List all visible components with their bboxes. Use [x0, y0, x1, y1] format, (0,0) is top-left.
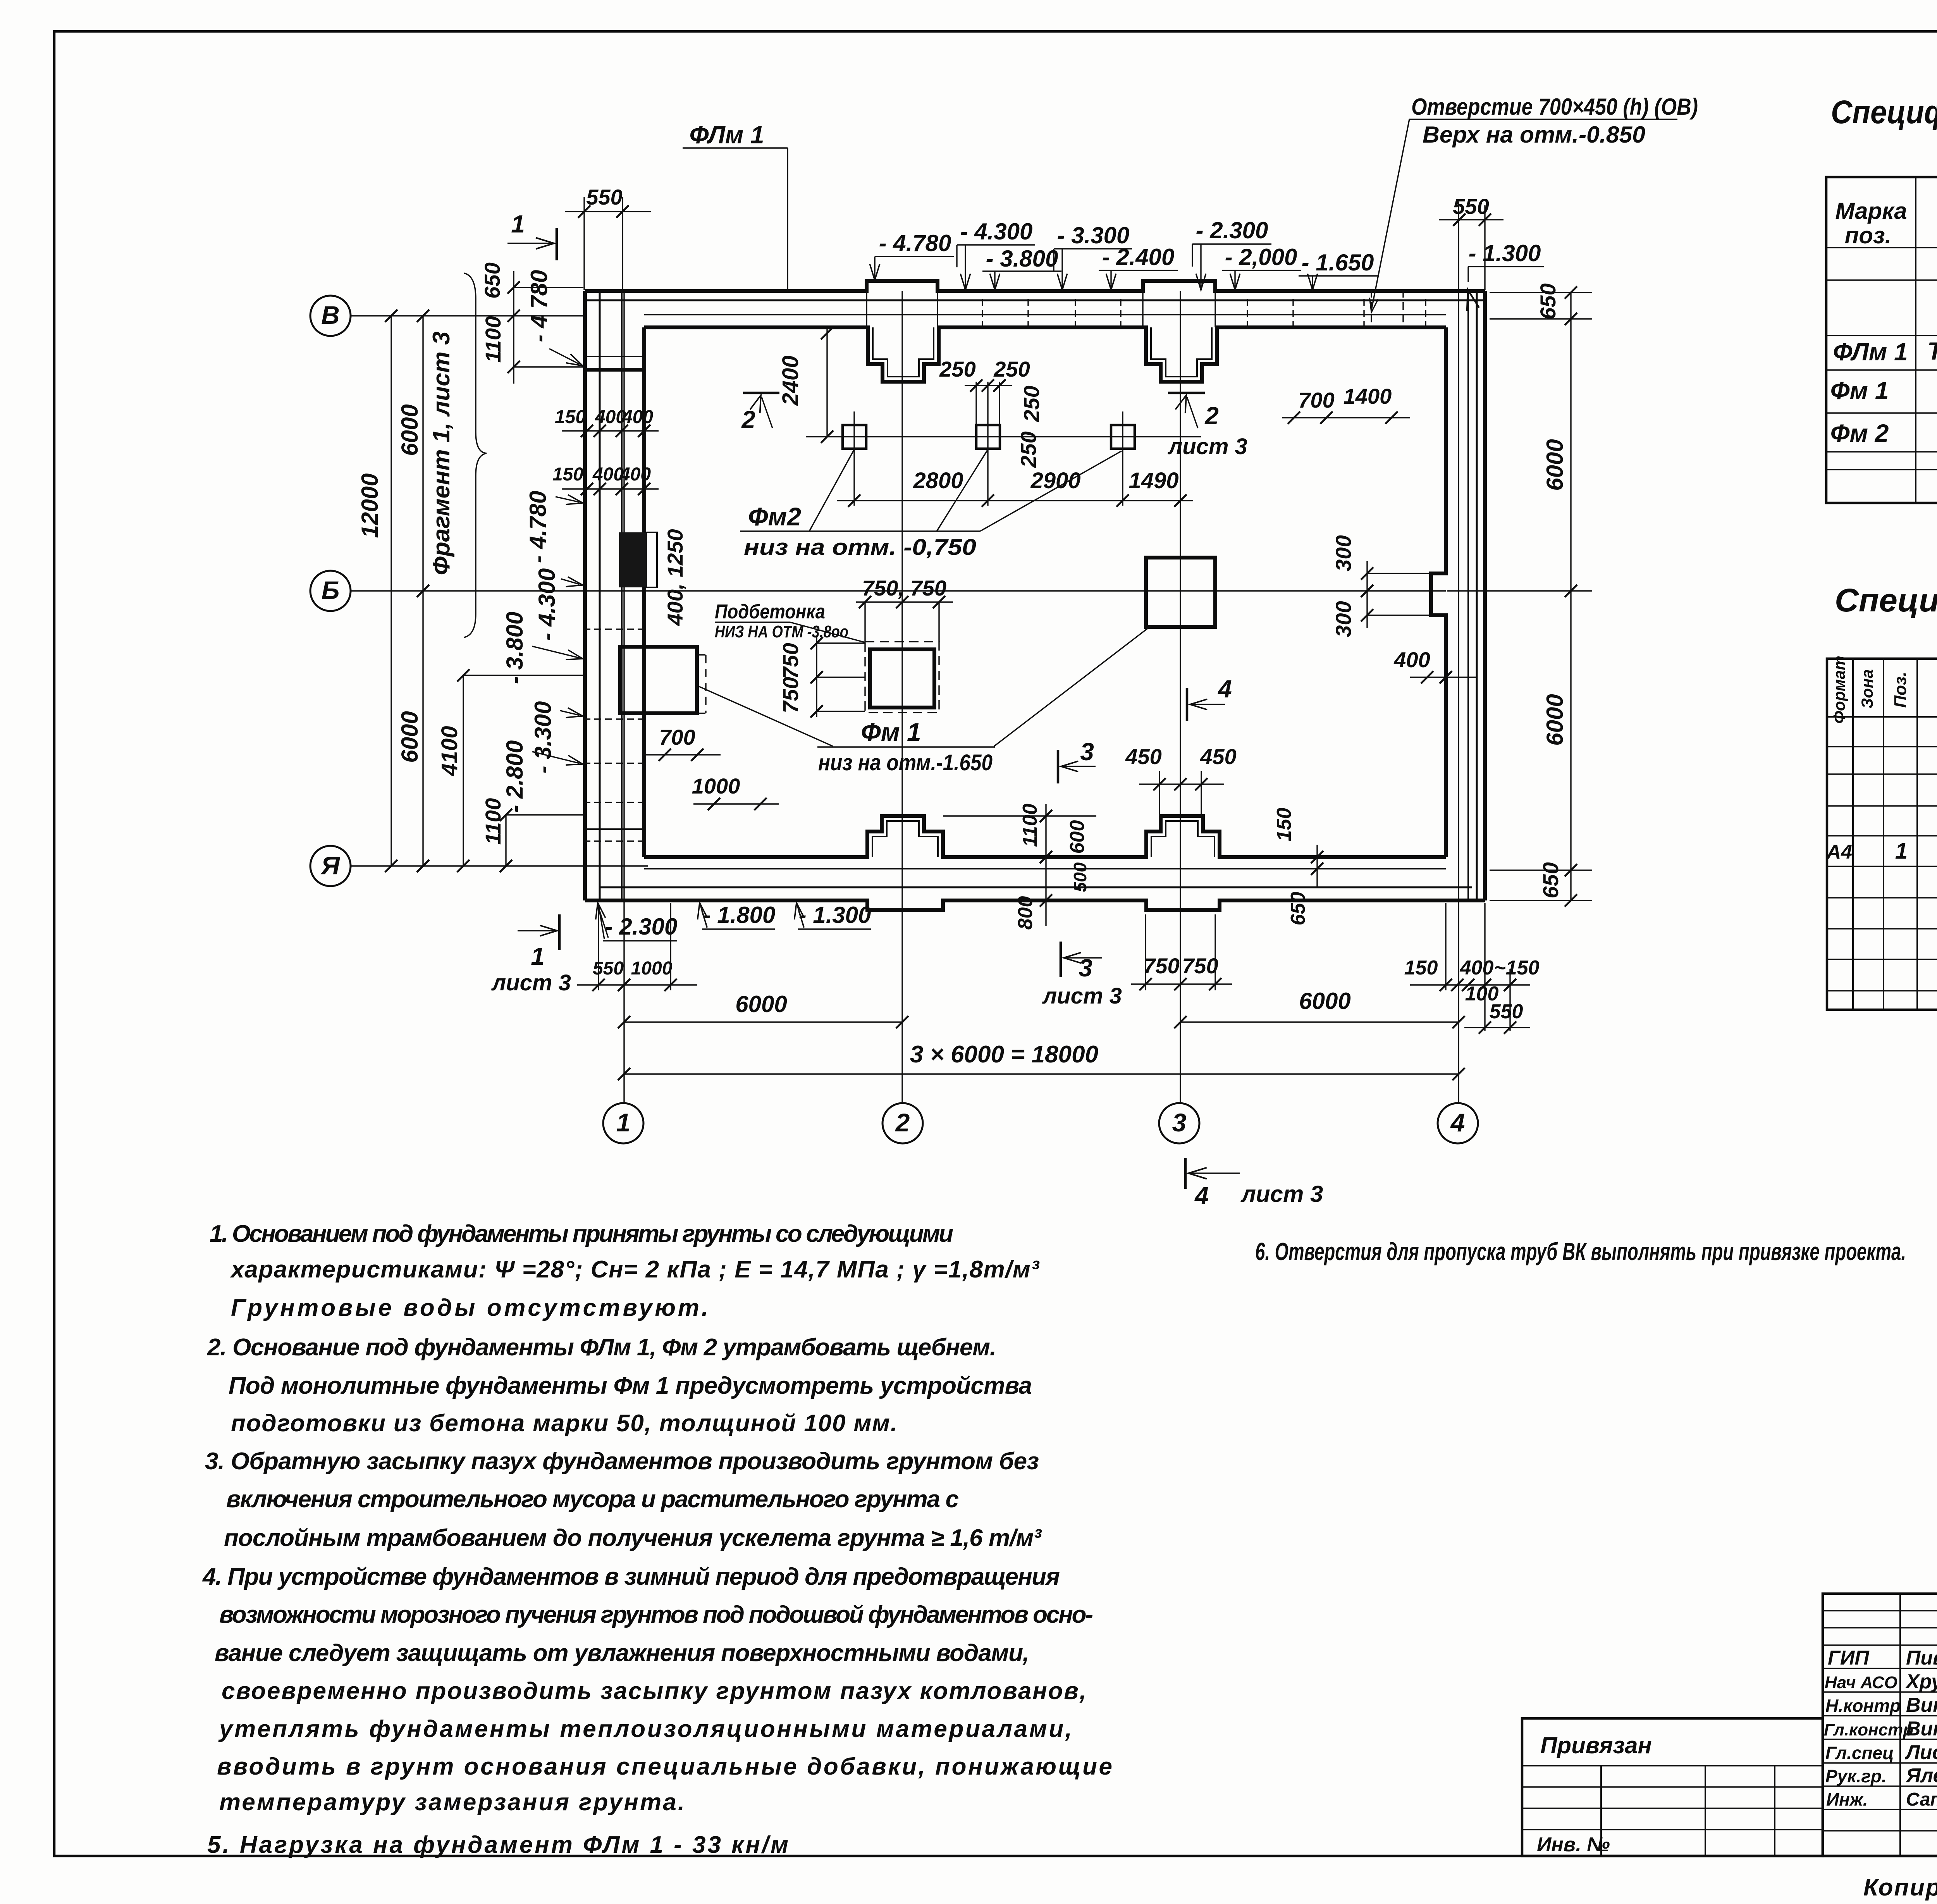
- dim 550 top right: [1439, 194, 1503, 290]
- svg-text:500: 500: [1070, 862, 1090, 892]
- title block signature table: [1823, 1594, 1937, 1856]
- axis line col1 vertical: [623, 291, 624, 1103]
- left wall widening at axis B2: [644, 532, 657, 587]
- bottom dim line 3x6000=18000: [618, 1041, 1465, 1080]
- svg-text:- 4 780: - 4 780: [526, 270, 552, 343]
- vertical label -4.780 at top left corner: [526, 270, 585, 370]
- dim 250 250 above square2: [939, 357, 1030, 425]
- notes block: [202, 1221, 1112, 1858]
- section mark 1 bottom with list 3: [491, 914, 571, 995]
- svg-text:3. Обратную засыпку пазух ф: 3. Обратную засыпку пазух фундаментов пр…: [205, 1448, 1039, 1475]
- svg-text:Марка: Марка: [1835, 198, 1907, 224]
- svg-text:150: 150: [1273, 808, 1295, 842]
- svg-text:4: 4: [1450, 1108, 1465, 1137]
- right wall inner offset line: [1467, 291, 1469, 900]
- svg-text:ТП: ТП: [1927, 337, 1937, 365]
- svg-text:150: 150: [1404, 957, 1438, 979]
- table 2 grid: [1827, 659, 1937, 1010]
- svg-text:ГИП: ГИП: [1828, 1647, 1870, 1669]
- elevation tick dashes on top wall: [982, 299, 1426, 329]
- svg-text:Спецификация к схеме расположе: Спецификация к схеме расположения фундам…: [1831, 94, 1937, 130]
- svg-text:- 4.300: - 4.300: [534, 568, 560, 641]
- svg-text:включения строительного мусо: включения строительного мусора и растите…: [226, 1486, 959, 1513]
- svg-text:4100: 4100: [437, 726, 462, 776]
- svg-text:Зона: Зона: [1858, 669, 1876, 708]
- svg-text:- 1.800: - 1.800: [703, 902, 776, 928]
- elevation label -2.400: [1099, 244, 1178, 290]
- dims on bottom wall col3: 150 650: [1273, 808, 1323, 926]
- svg-text:лист 3: лист 3: [491, 970, 571, 995]
- elevation label -4.300: [957, 219, 1035, 290]
- right wall outer edge: [1483, 291, 1487, 900]
- svg-text:Гл.констр: Гл.констр: [1824, 1720, 1913, 1739]
- svg-text:Фм 1: Фм 1: [861, 718, 921, 746]
- svg-text:НИЗ НА ОТМ -3.8оо: НИЗ НА ОТМ -3.8оо: [715, 622, 848, 641]
- svg-text:1000: 1000: [692, 774, 740, 798]
- dim 250 rotated pair right of square2: [1016, 386, 1044, 468]
- dim 750,750 above dashed square: [856, 576, 953, 642]
- svg-text:Фрагмент 1, лист 3: Фрагмент 1, лист 3: [428, 331, 455, 575]
- elevation tick dashes on left wall: [583, 629, 644, 841]
- label Fm1 with leaders: [699, 626, 1151, 775]
- svg-text:3 × 6000 = 18000: 3 × 6000 = 18000: [910, 1041, 1098, 1068]
- svg-text:2: 2: [895, 1108, 910, 1137]
- svg-text:3: 3: [1079, 954, 1092, 982]
- left wall outer edge: [583, 291, 587, 900]
- svg-text:- 1.650: - 1.650: [1302, 250, 1374, 275]
- bottom pilaster col2 inner outline: [872, 821, 938, 857]
- elevation label -4.780 top: [870, 230, 954, 280]
- svg-text:Сапрошина: Сапрошина: [1906, 1789, 1937, 1810]
- svg-text:лист 3: лист 3: [1167, 434, 1247, 459]
- elevation label -1.650: [1299, 250, 1378, 290]
- bottom elevation label -1.800: [695, 902, 775, 929]
- opening dashed marks on top wall: [1371, 290, 1372, 329]
- svg-text:Б: Б: [322, 576, 340, 604]
- svg-text:650: 650: [1538, 862, 1563, 898]
- svg-text:поз.: поз.: [1845, 222, 1892, 248]
- svg-text:Подбетонка: Подбетонка: [715, 601, 825, 623]
- svg-text:700: 700: [659, 725, 695, 749]
- svg-text:- 1.300: - 1.300: [1469, 240, 1541, 266]
- table 1 row FLm1: [1833, 334, 1937, 366]
- dim chain 6000 6000 left: [397, 310, 429, 872]
- hatched block on left wall at axis B2: [619, 532, 647, 587]
- elevation label -3.800: [982, 246, 1061, 290]
- svg-text:- 1.300: - 1.300: [799, 902, 871, 928]
- svg-text:возможности морозного пучени: возможности морозного пучения грунтов по…: [219, 1601, 1093, 1628]
- bottom dim line 6000 right span: [1174, 988, 1465, 1028]
- svg-text:450: 450: [1125, 744, 1161, 769]
- dim 400 right lower: [1393, 647, 1476, 683]
- elevation label -1.300 top right: [1462, 240, 1544, 311]
- axis line col2 vertical: [901, 291, 903, 1103]
- svg-text:своевременно производить зас: своевременно производить засыпку грунтом…: [222, 1678, 1086, 1704]
- svg-text:низ на отм.-1.650: низ на отм.-1.650: [818, 750, 993, 775]
- elevation label -3.300: [1054, 222, 1132, 290]
- svg-text:800: 800: [1014, 896, 1037, 930]
- dim 2800 2900 1490 row: [837, 462, 1193, 507]
- svg-text:6000: 6000: [397, 404, 423, 456]
- section mark 2 left: [741, 393, 779, 434]
- svg-text:характеристиками: Ψ =28°; Сн=: характеристиками: Ψ =28°; Сн= 2 кПа ; Е …: [230, 1256, 1039, 1283]
- svg-text:2900: 2900: [1030, 468, 1080, 493]
- svg-text:низ на отм. -0,750: низ на отм. -0,750: [744, 535, 976, 560]
- dim 750 750 rotated at dashed square: [778, 635, 865, 718]
- svg-text:1000: 1000: [631, 958, 673, 979]
- svg-text:400: 400: [619, 464, 651, 485]
- svg-text:утеплять фундаменты теплоизо: утеплять фундаменты теплоизоляционными м…: [218, 1716, 1072, 1742]
- right dim chain 650 6000 6000 650: [1447, 283, 1592, 907]
- svg-text:Инж.: Инж.: [1826, 1789, 1868, 1809]
- svg-text:4: 4: [1217, 675, 1232, 703]
- svg-text:Инв. №: Инв. №: [1537, 1833, 1610, 1856]
- dims bottom right corner 150 400 150 100 550: [1404, 903, 1540, 1034]
- axis circle 4: [1438, 1103, 1478, 1143]
- svg-text:- 3.800: - 3.800: [502, 612, 528, 684]
- axis circle B row: [310, 296, 351, 336]
- bottom pilaster col3 inner outline: [1151, 821, 1214, 857]
- Fm2 column square 2: [976, 411, 1000, 462]
- svg-text:1100: 1100: [1019, 804, 1041, 847]
- axis circle B2 row: [310, 571, 351, 611]
- axis line col4 vertical: [1458, 291, 1459, 1103]
- svg-text:- 4.780: - 4.780: [525, 491, 551, 563]
- svg-text:250: 250: [993, 357, 1030, 381]
- svg-text:1100: 1100: [481, 798, 505, 845]
- svg-text:300: 300: [1331, 601, 1356, 637]
- dashed Fm1 square with podbetonka: [865, 642, 939, 713]
- svg-text:- 2,000: - 2,000: [1225, 244, 1297, 270]
- top wall outer offset line: [585, 300, 1485, 301]
- svg-text:6000: 6000: [1542, 439, 1568, 491]
- axis circle 3: [1159, 1103, 1199, 1143]
- svg-text:Винклер: Винклер: [1906, 1694, 1937, 1716]
- dim 1100 bottom left: [481, 798, 583, 872]
- bottom elevation label -1.300: [791, 902, 871, 929]
- big Fm1 square at axis B2: [1146, 558, 1215, 627]
- svg-text:Фм 1: Фм 1: [1830, 377, 1889, 405]
- dim 4100: [437, 669, 583, 872]
- Fm2 row centerline: [806, 436, 1201, 437]
- svg-text:А4: А4: [1826, 841, 1853, 863]
- svg-text:400: 400: [595, 407, 626, 427]
- svg-text:Нач АСО: Нач АСО: [1825, 1673, 1897, 1692]
- svg-text:1: 1: [1895, 838, 1908, 864]
- dim 750 750 bottom col3: [1131, 914, 1232, 990]
- section mark 2 right with list 3: [1167, 393, 1247, 459]
- axis circle 1: [603, 1103, 643, 1143]
- svg-text:750: 750: [1143, 954, 1179, 978]
- svg-text:750: 750: [778, 643, 803, 679]
- axis line B2 horizontal: [351, 590, 1446, 591]
- svg-text:400, 1250: 400, 1250: [663, 529, 687, 626]
- left wall inner edge: [642, 327, 646, 857]
- fragment bracket: [464, 273, 487, 637]
- svg-text:- 2.300: - 2.300: [1196, 217, 1268, 243]
- svg-text:Поз.: Поз.: [1891, 671, 1910, 708]
- bottom elevation label -2.300: [593, 902, 677, 941]
- pilaster edge verticals top strip: [866, 291, 867, 327]
- svg-text:1: 1: [511, 210, 525, 238]
- left wall outer offset line: [599, 291, 601, 900]
- signature table names: [1824, 1647, 1937, 1810]
- right wall inner edge with notch: [1431, 327, 1446, 857]
- svg-text:1: 1: [616, 1108, 631, 1137]
- svg-text:Грунтовые воды отсутствуют.: Грунтовые воды отсутствуют.: [231, 1295, 708, 1321]
- vertical labels -4.780 -4.300 -3.800 -3.300 -2.800 on left: [502, 491, 584, 813]
- svg-text:Фм 2: Фм 2: [1830, 419, 1889, 447]
- table 2 header text: [1830, 656, 1937, 723]
- left corner footing bottom lines: [585, 356, 644, 357]
- svg-text:Спецификация фундамента ФЛм 1: Спецификация фундамента ФЛм 1: [1835, 582, 1937, 618]
- dim 2400 vertical: [778, 327, 833, 443]
- svg-text:- 4.300: - 4.300: [960, 219, 1033, 244]
- table 1 row Fm1: [1830, 375, 1937, 406]
- label Podbetonka: [715, 601, 865, 642]
- svg-text:Винклер: Винклер: [1906, 1718, 1937, 1740]
- dim 700 1400 right top: [1282, 384, 1410, 424]
- dim 550 top left: [565, 185, 651, 290]
- svg-text:Я: Я: [320, 851, 341, 880]
- bottom wall outer offset line: [600, 887, 1472, 888]
- svg-text:4: 4: [1194, 1182, 1209, 1210]
- svg-text:лист 3: лист 3: [1042, 983, 1122, 1009]
- top wall inner offset line: [644, 314, 1446, 315]
- svg-text:6000: 6000: [1299, 988, 1350, 1014]
- svg-text:1100: 1100: [481, 316, 505, 363]
- svg-text:2800: 2800: [913, 468, 963, 493]
- svg-text:750: 750: [778, 677, 803, 713]
- svg-text:300: 300: [1331, 535, 1356, 571]
- top wall inner edge with pilasters: [644, 327, 1446, 382]
- svg-text:вводить в грунт основания: вводить в грунт основания специальные до…: [217, 1753, 1112, 1780]
- dim rows 150 400 400 lower: [552, 464, 659, 495]
- svg-text:Пивторак: Пивторак: [1906, 1647, 1937, 1669]
- svg-text:- 3.800: - 3.800: [986, 246, 1058, 272]
- svg-text:1. Основанием под фундаменты п: 1. Основанием под фундаменты приняты гру…: [210, 1221, 953, 1247]
- svg-text:В: В: [321, 301, 340, 329]
- svg-text:1400: 1400: [1344, 384, 1392, 408]
- svg-text:6. Отверстия для пропуска: 6. Отверстия для пропуска труб ВК выполн…: [1255, 1238, 1906, 1265]
- svg-text:2. Основание под фундаменты Ф: 2. Основание под фундаменты ФЛм 1, Фм 2 …: [207, 1334, 996, 1361]
- svg-text:150: 150: [552, 464, 583, 485]
- Fm2 column square 1: [843, 411, 866, 462]
- svg-text:послойным трамбованием до п: послойным трамбованием до получения γске…: [224, 1525, 1042, 1551]
- svg-text:400: 400: [622, 407, 653, 427]
- svg-text:- 2.300: - 2.300: [605, 914, 678, 940]
- dim 1000: [692, 774, 779, 810]
- foundation Fm1 block on left wall: [620, 647, 697, 713]
- dim rows 150 400 400 upper: [555, 407, 659, 437]
- svg-text:- 4.780: - 4.780: [879, 230, 951, 256]
- elevation label -2.000: [1222, 244, 1301, 290]
- section mark 1 top: [507, 210, 557, 260]
- svg-text:ФЛм 1: ФЛм 1: [689, 121, 764, 149]
- top pilaster col2 inner outline: [873, 327, 934, 377]
- svg-text:Гл.спец: Гл.спец: [1825, 1743, 1894, 1763]
- svg-text:6000: 6000: [735, 991, 787, 1017]
- dim 300 300 at right wall notch: [1331, 535, 1431, 637]
- svg-text:Лисичкин: Лисичкин: [1904, 1741, 1937, 1764]
- svg-text:Н.контр: Н.контр: [1825, 1696, 1901, 1716]
- dim 550 1000 bottom left: [577, 903, 697, 991]
- svg-text:подготовки из бетона марки: подготовки из бетона марки 50, толщиной …: [231, 1410, 897, 1437]
- svg-text:- 3.300: - 3.300: [530, 701, 556, 774]
- svg-text:Формат: Формат: [1830, 656, 1848, 723]
- svg-text:Ялехова: Ялехова: [1905, 1765, 1937, 1787]
- axis line A horizontal: [351, 865, 648, 866]
- axis line col3 vertical: [1180, 291, 1181, 1103]
- Fm1 dashed podbetonka at left wall: [697, 655, 706, 713]
- svg-text:750: 750: [1182, 954, 1218, 978]
- svg-text:6000: 6000: [397, 711, 423, 763]
- dim 700 at left Fm1: [643, 725, 721, 761]
- top wall outer edge with pilaster bumps: [585, 281, 1485, 291]
- svg-text:1490: 1490: [1128, 468, 1178, 493]
- bottom dim line 6000 left span: [618, 991, 908, 1028]
- svg-text:2: 2: [1204, 402, 1219, 430]
- bottom wall inner edge with pilasters: [644, 816, 1446, 857]
- svg-text:150: 150: [555, 407, 586, 427]
- table 1 row Fm2: [1830, 418, 1937, 450]
- svg-text:Отверстие 700×450 (h) (ОВ): Отверстие 700×450 (h) (ОВ): [1411, 94, 1698, 120]
- dims on bottom wall pilaster col2: 1100 600 500 800: [943, 804, 1096, 930]
- svg-text:вание следует защищать от: вание следует защищать от увлажнения пов…: [215, 1640, 1029, 1666]
- svg-text:600: 600: [1066, 820, 1089, 854]
- svg-text:~150: ~150: [1494, 957, 1539, 979]
- svg-text:ФЛм 1: ФЛм 1: [1833, 338, 1908, 366]
- svg-text:12000: 12000: [357, 473, 383, 538]
- svg-text:Фм2: Фм2: [748, 502, 801, 531]
- svg-text:3: 3: [1172, 1108, 1187, 1137]
- svg-text:Привязан: Привязан: [1540, 1732, 1651, 1758]
- svg-text:650: 650: [1287, 892, 1309, 926]
- svg-text:550: 550: [586, 185, 622, 209]
- svg-text:Хрупало: Хрупало: [1905, 1670, 1937, 1693]
- svg-text:лист 3: лист 3: [1240, 1181, 1323, 1207]
- svg-text:450: 450: [1200, 744, 1236, 769]
- svg-text:250: 250: [1016, 431, 1041, 468]
- axis line B horizontal: [351, 315, 586, 316]
- svg-text:температуру замерзания грун: температуру замерзания грунта.: [219, 1789, 685, 1816]
- axis circle 2: [882, 1103, 923, 1143]
- left wall inner offset line: [621, 291, 623, 900]
- svg-text:Копировал Волкова: Копировал Волкова: [1863, 1874, 1937, 1901]
- svg-text:650: 650: [1536, 283, 1560, 319]
- svg-text:- 2.800: - 2.800: [502, 740, 528, 813]
- dim 400,1250 rotated at left wall: [663, 529, 687, 626]
- svg-text:2400: 2400: [778, 355, 803, 406]
- svg-text:550: 550: [1490, 1000, 1523, 1023]
- svg-text:4. При устройстве фундаменто: 4. При устройстве фундаментов в зимний п…: [202, 1563, 1060, 1590]
- dim chain 12000 left: [357, 310, 397, 872]
- Fm2 column square 3: [1111, 411, 1135, 462]
- table 1 header text: [1835, 193, 1937, 248]
- svg-text:3: 3: [1080, 738, 1094, 766]
- axis circle A row: [310, 846, 351, 886]
- svg-text:400: 400: [1460, 957, 1494, 979]
- section mark 3 bottom with list 3: [1042, 942, 1122, 1009]
- svg-text:750, 750: 750, 750: [862, 576, 946, 600]
- solid Fm1 inner square: [870, 649, 934, 708]
- table 1 grid: [1826, 177, 1937, 503]
- svg-text:5. Нагрузка на фундамент ФЛ: 5. Нагрузка на фундамент ФЛм 1 - 33 кн/м: [207, 1832, 788, 1858]
- elevation label -2.300: [1192, 217, 1271, 290]
- svg-text:Верх на отм.-0.850: Верх на отм.-0.850: [1423, 122, 1645, 148]
- dim 650 / 1100 left of corner: [480, 262, 583, 384]
- svg-text:250: 250: [939, 357, 975, 381]
- svg-text:1: 1: [531, 942, 545, 970]
- label Fm2 with leaders: [740, 449, 1122, 560]
- svg-text:Под монолитные фундаменты Фм: Под монолитные фундаменты Фм 1 предусмот…: [229, 1372, 1032, 1399]
- bottom wall outer edge with bumps: [585, 900, 1485, 910]
- top pilaster col3 inner outline: [1151, 327, 1212, 377]
- label FLm1 with leader: [683, 121, 788, 291]
- right wall outer offset line: [1476, 291, 1478, 900]
- left corner footing bottom (lower corner): [585, 828, 644, 830]
- svg-text:250: 250: [1019, 386, 1044, 422]
- svg-text:700: 700: [1298, 388, 1334, 412]
- section mark 4 bottom with list 3: [1185, 1158, 1323, 1210]
- title block privyazan box: [1522, 1718, 1823, 1856]
- bottom wall inner offset line: [644, 868, 1446, 869]
- svg-text:650: 650: [480, 262, 504, 298]
- svg-text:400: 400: [1393, 647, 1430, 672]
- label opening hole with leader: [1367, 94, 1698, 313]
- table 2 row bolt: [1826, 831, 1937, 873]
- svg-text:550: 550: [593, 958, 624, 979]
- svg-text:2: 2: [741, 406, 755, 434]
- svg-text:- 2.400: - 2.400: [1102, 244, 1175, 270]
- dim 450 450: [1125, 744, 1236, 816]
- section mark 4 upper: [1187, 675, 1232, 721]
- svg-text:400: 400: [592, 464, 624, 485]
- section mark 3 upper: [1058, 738, 1096, 783]
- svg-text:6000: 6000: [1542, 694, 1568, 745]
- svg-text:Рук.гр.: Рук.гр.: [1825, 1766, 1887, 1786]
